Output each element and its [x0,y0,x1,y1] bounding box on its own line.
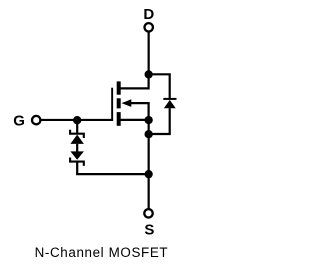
zener Z2 triangle [70,151,84,159]
wire body arrow to source junction [131,103,149,120]
junction body-diode anode node [145,130,153,138]
transistor Q1 body arrow [122,99,132,107]
wire source junction down to S terminal [148,120,150,210]
transistor Q1 source channel bar [117,112,121,126]
wire drain junction to body-diode cathode [149,74,170,98]
svg-text:S: S [144,222,154,239]
junction gate node [73,116,81,124]
zener Z1 cathode bar [70,130,84,138]
diode D1 body diode cathode bar [163,98,176,100]
wire zener Z2 cathode to source rail [77,162,148,175]
wire body-diode anode to source junction [149,108,170,134]
wire gate junction down to zener Z1 [76,120,78,133]
wire drain junction to MOSFET drain bar [117,74,149,88]
wire G terminal to gate plate [40,119,113,121]
wire zener Z1 anode to zener Z2 anode [76,144,78,152]
junction source node [145,116,153,124]
transistor Q1 drain channel bar [117,81,121,94]
diode D1 body diode triangle [164,100,176,108]
zener Z2 cathode bar [70,158,84,166]
transistor Q1 body channel bar [117,98,121,108]
transistor Q1 gate plate [111,88,113,121]
wire D terminal to drain junction [148,32,150,75]
terminal G circle [32,116,40,124]
junction drain node [145,70,153,78]
terminal S circle [144,209,152,217]
wire MOSFET source bar to source junction [121,119,149,121]
svg-text:G: G [13,113,25,130]
svg-text:D: D [143,6,154,23]
junction source rail node [145,170,153,178]
zener Z1 triangle [70,135,84,144]
terminal D circle [145,23,153,31]
svg-text:N-Channel MOSFET: N-Channel MOSFET [35,245,169,260]
